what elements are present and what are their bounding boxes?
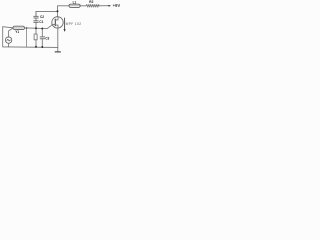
transistor Q1 source stub xyxy=(55,25,58,28)
svg-text:L1: L1 xyxy=(73,0,77,4)
wire source down to rail xyxy=(57,28,59,47)
transistor Q1 channel bar xyxy=(54,19,56,26)
wire gate rail xyxy=(25,25,52,29)
svg-text:C1: C1 xyxy=(39,20,43,24)
output arrowhead xyxy=(64,29,66,32)
junction dot gate rail 1 xyxy=(35,27,37,29)
svg-text:+9V: +9V xyxy=(113,3,120,8)
resistor R2 zigzag xyxy=(86,4,99,7)
wire left box outline xyxy=(3,27,13,47)
transistor Q1 circle xyxy=(52,17,63,28)
wire top feedback corner xyxy=(36,11,58,16)
wire drain into transistor xyxy=(57,11,59,16)
sine inside source xyxy=(7,39,10,40)
output arrow line xyxy=(64,18,66,30)
wire source-circle top lead xyxy=(9,28,13,37)
junction dot top xyxy=(57,10,59,12)
svg-text:Y1: Y1 xyxy=(15,30,19,34)
ground xyxy=(57,47,59,51)
junction dot gate rail 2 xyxy=(41,28,43,30)
junction dot bottom 2 xyxy=(41,46,43,48)
crystal Y1 pill xyxy=(13,26,25,29)
transistor Q1 gate arrow xyxy=(52,24,55,26)
wire drain up to supply xyxy=(58,6,70,12)
wire source-circle bottom lead xyxy=(8,43,10,47)
wire pill to resistor xyxy=(80,5,86,7)
wire resistor to arrow xyxy=(99,5,108,7)
resistor R1 box xyxy=(35,28,37,34)
capacitor C2 xyxy=(35,11,37,16)
capacitor C1 xyxy=(35,18,37,21)
junction dot bottom 1 xyxy=(35,46,37,48)
transistor Q1 drain stub xyxy=(55,17,58,20)
wire crystal junction drop xyxy=(26,28,28,47)
capacitor C3 xyxy=(41,29,43,37)
wire bottom rail xyxy=(9,46,58,49)
svg-text:C3: C3 xyxy=(45,37,49,41)
svg-text:C2: C2 xyxy=(40,15,44,19)
svg-text:MPF 102: MPF 102 xyxy=(66,22,82,26)
supply arrowhead xyxy=(109,5,111,7)
inductor L1 pill xyxy=(69,4,80,7)
svg-text:R2: R2 xyxy=(89,0,93,4)
source circle (AC) xyxy=(5,37,11,43)
junction dot crystal xyxy=(26,27,27,28)
